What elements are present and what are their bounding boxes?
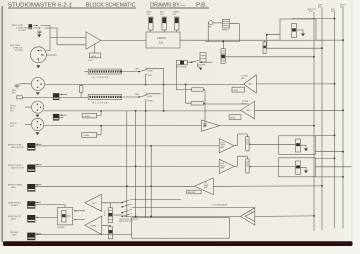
svg-text:INSERT: INSERT xyxy=(222,30,229,32)
svg-text:LED: LED xyxy=(208,27,212,29)
potentiometer send level B xyxy=(246,159,251,173)
wire jack/mic to preamp verticals xyxy=(44,25,57,44)
wire left mix line xyxy=(45,83,244,85)
wire insert to fader riser xyxy=(230,24,240,42)
node junction left mix line xyxy=(145,84,147,86)
node junction trim tap xyxy=(100,110,102,112)
wire mono amp to monitor bus xyxy=(255,215,314,218)
potentiometer GAIN box xyxy=(89,53,101,58)
wire jack J2 to display feed xyxy=(59,96,88,98)
svg-text:+GAIN: +GAIN xyxy=(83,134,89,137)
lamp PFL indicator xyxy=(208,21,213,29)
wire trim ch4 to monitor line xyxy=(97,126,101,135)
wire riser 1 into monitor box xyxy=(126,111,128,218)
jack JF contacts xyxy=(35,233,41,235)
svg-text:JACK: JACK xyxy=(12,234,18,237)
wire pot A out xyxy=(249,143,295,145)
op-amp A7 foldback amp xyxy=(194,178,213,195)
svg-text:XLR: XLR xyxy=(10,126,14,128)
switch monitor send on/off xyxy=(188,60,210,62)
potentiometer monitor send xyxy=(177,60,188,68)
wire left mix line to aux bus xyxy=(256,83,334,85)
svg-text:MASTER: MASTER xyxy=(188,191,196,194)
wire select line xyxy=(132,199,181,201)
node junction aux bus ch1 xyxy=(334,18,336,20)
jack JA effects return 1 xyxy=(27,143,35,151)
display left meter xyxy=(88,69,121,74)
wire fader out to monitor bus xyxy=(225,56,314,58)
ground monitor send switch xyxy=(198,63,201,67)
switch routing 1 xyxy=(139,69,147,74)
node junction monitor line taps xyxy=(100,125,102,127)
node junction aux bus A xyxy=(334,135,336,137)
svg-text:GAIN: GAIN xyxy=(91,55,96,58)
svg-text:JACK: JACK xyxy=(11,218,17,221)
wire amp A8 feed xyxy=(102,203,122,208)
wire trim to right mix line xyxy=(97,111,101,116)
svg-text:SELECT BLOCK: SELECT BLOCK xyxy=(119,221,133,223)
right paper edge faint line xyxy=(351,0,354,246)
switch phones contacts xyxy=(75,211,85,220)
jack JA contacts xyxy=(35,143,41,145)
jack JC effects send xyxy=(27,184,35,192)
svg-text:XLR: XLR xyxy=(10,111,14,113)
node junction right bus B xyxy=(342,176,344,178)
potentiometer EQ mid slider xyxy=(162,17,167,32)
node junction risers on left mix line xyxy=(163,84,165,86)
jack J3 contacts xyxy=(59,115,67,118)
jack JB effects return 2 xyxy=(27,165,35,173)
potentiometer send level A xyxy=(246,137,251,151)
node junction pan feed xyxy=(266,34,268,36)
svg-text:3 BAND: 3 BAND xyxy=(157,37,166,40)
jack JB contacts xyxy=(35,164,41,166)
ground below C1 xyxy=(37,34,41,37)
wire right mix to right bus xyxy=(255,109,343,111)
svg-text:MON: MON xyxy=(147,96,152,98)
block phones pot box xyxy=(57,207,73,229)
wire contacts to amps xyxy=(84,211,87,220)
node junction aux bus B xyxy=(334,158,336,160)
block insert jack xyxy=(222,20,230,32)
svg-text:ROUTING: ROUTING xyxy=(197,64,206,66)
switch monitor select 2a xyxy=(122,210,132,213)
block monitor section box xyxy=(119,218,229,239)
wire master mono line xyxy=(124,215,240,217)
wire fader left to box xyxy=(113,214,123,216)
fader channel 1 xyxy=(221,49,225,64)
svg-text:SOCKET: SOCKET xyxy=(18,30,27,32)
node junction monitor bus ch1 xyxy=(313,56,315,58)
wire riser 2 into monitor box xyxy=(135,111,137,218)
node junction master line taps xyxy=(126,185,128,187)
svg-text:JACK SOCKET: JACK SOCKET xyxy=(11,167,25,170)
filter block U2 3 band EQ xyxy=(146,32,180,48)
wire preamp to gain pot xyxy=(94,44,96,53)
switch monitor select 1b xyxy=(122,204,132,207)
svg-text:JACK: JACK xyxy=(11,186,17,189)
svg-text:IN JACK: IN JACK xyxy=(11,204,19,207)
node junction right mix line xyxy=(145,110,147,112)
svg-text:RIGHT: RIGHT xyxy=(91,225,98,227)
XLR X4 connector xyxy=(31,118,43,130)
switch monitor select 2b xyxy=(122,214,132,217)
wire tag to jack J2 xyxy=(22,96,53,98)
wire r4 row extension xyxy=(203,103,249,105)
switch monitor select 1a xyxy=(122,200,132,203)
wire master line to left bus xyxy=(213,185,322,187)
wire XLR X3 lead xyxy=(25,106,32,108)
op-amp A8 left power amp xyxy=(85,194,102,211)
svg-text:TO POWER AMPS: TO POWER AMPS xyxy=(212,204,228,207)
wire box A top to aux bus xyxy=(316,135,335,137)
svg-text:SUM: SUM xyxy=(249,212,253,214)
XLR X2 connector xyxy=(31,77,44,90)
block gain trim ch3 xyxy=(82,113,97,118)
wire box B bottom to right bus xyxy=(316,176,344,178)
bottom light strip below binder bar xyxy=(0,246,360,254)
svg-text:E.Q.: E.Q. xyxy=(159,42,164,45)
node junction fader feed xyxy=(222,41,224,43)
display right meter xyxy=(88,95,121,100)
node junction line A taps xyxy=(150,145,152,147)
switch routing 2 xyxy=(139,95,147,100)
block gain trim ch4 xyxy=(82,132,97,137)
op-amp A6 send amp B xyxy=(219,159,234,173)
svg-text:LEVEL: LEVEL xyxy=(233,90,239,92)
fader master left xyxy=(108,208,112,223)
XLR X1 connector xyxy=(30,47,46,63)
wire jack JD to phones pot box xyxy=(35,205,65,208)
wire right bus riser xyxy=(163,68,165,111)
svg-text:(L) DISPLAY: (L) DISPLAY xyxy=(92,76,109,79)
block foldback label xyxy=(187,190,201,194)
block left mix amp label xyxy=(232,87,245,92)
svg-text:PHONES: PHONES xyxy=(57,227,65,229)
wire display left stub xyxy=(84,71,88,73)
block right mix amp label xyxy=(229,115,241,120)
wire R4 leads xyxy=(186,84,205,103)
wire display to routing switch 2 xyxy=(121,96,139,98)
right white margin band xyxy=(351,0,360,254)
resistor R3 monitor mix xyxy=(192,88,204,91)
capacitor C2 pad xyxy=(15,85,20,88)
block master pot box B xyxy=(279,158,316,177)
jack JE monitor out xyxy=(27,215,35,222)
op-amp A10 mono output amp xyxy=(240,208,254,226)
jack JD contacts xyxy=(35,201,41,203)
node junction right bus ch1 xyxy=(342,39,344,41)
ground below XLR X4 xyxy=(36,131,40,135)
resistor R2 meter feed xyxy=(79,84,83,97)
wire monitor amp out to monitor bus xyxy=(219,125,314,127)
fader master right xyxy=(108,227,112,239)
wire LED to insert box xyxy=(213,22,223,24)
jack JF phones xyxy=(27,233,35,241)
op-amp A4 monitor amp xyxy=(201,120,219,131)
wire effects line B xyxy=(35,165,219,167)
wire amp B to pot B xyxy=(234,156,247,166)
jack JC contacts xyxy=(35,184,41,186)
ground below XLR X1 xyxy=(36,63,40,68)
potentiometer aux send ch1 xyxy=(263,40,266,53)
op-amp A9 right power amp xyxy=(85,216,102,235)
potentiometer EQ treble slider xyxy=(175,17,180,32)
svg-text:(R) DISPLAY: (R) DISPLAY xyxy=(92,101,110,104)
svg-text:SOCKET: SOCKET xyxy=(15,50,24,52)
wire monitor bus vertical xyxy=(313,12,315,231)
wire preamp input lines xyxy=(46,38,86,56)
svg-text:MIX L: MIX L xyxy=(241,78,246,80)
svg-text:+GAIN: +GAIN xyxy=(84,115,90,118)
jack J1 socket xyxy=(29,24,33,29)
svg-text:RIGHT: RIGHT xyxy=(147,71,154,73)
wire amp A9 feed xyxy=(102,225,111,227)
wire fader left out run xyxy=(132,207,255,209)
binder bar bottom xyxy=(3,241,353,246)
wire pan feed with tee xyxy=(267,35,280,49)
wire link between amps xyxy=(104,211,106,216)
node junction mix line taps xyxy=(135,110,137,112)
op-amp A3 right mix amp xyxy=(241,101,255,119)
ground below XLR X3 xyxy=(36,113,40,117)
wire box B out run xyxy=(316,166,352,168)
XLR X3 connector xyxy=(31,101,43,113)
node junction left bus ch1 xyxy=(321,47,323,49)
node junction right bus mix xyxy=(342,109,344,111)
wire left bus vertical xyxy=(321,8,323,231)
jack JE contacts xyxy=(35,216,57,218)
wire preamp output to EQ xyxy=(101,40,146,42)
wire aux bus vertical xyxy=(334,12,336,228)
block master pot box A xyxy=(279,136,316,155)
wire insert riser xyxy=(207,23,209,42)
svg-text:MIX R: MIX R xyxy=(242,104,248,106)
wire routing 1 right throw to right bus riser xyxy=(146,68,164,84)
wire pan box top to aux bus xyxy=(292,18,335,20)
wire box B top to aux bus xyxy=(316,157,335,159)
jack J2 contacts xyxy=(59,93,67,95)
left page edge dark line xyxy=(2,6,3,242)
svg-text:6-35MM JACK: 6-35MM JACK xyxy=(16,27,30,30)
wire pad to XLR X2 xyxy=(17,84,31,85)
block line level tag xyxy=(17,96,23,99)
jack JD monitor aux in xyxy=(27,201,35,208)
jack J1 switch contacts xyxy=(33,25,44,28)
resistor R1 network xyxy=(197,53,206,67)
wire jack JF run to monitor box xyxy=(35,234,131,236)
svg-text:LED: LED xyxy=(89,60,93,62)
wire aux send to left bus xyxy=(266,47,322,49)
op-amp A5 send amp A xyxy=(219,139,234,153)
wire XLR X4 lead xyxy=(25,124,31,126)
op-amp A1 mic/line preamp xyxy=(86,32,101,49)
wire riser 3 into monitor box xyxy=(150,146,152,218)
wire display to routing switch 1 xyxy=(121,71,139,73)
node junction right bus A xyxy=(342,151,344,153)
wire EQ output run xyxy=(180,39,280,41)
svg-text:RIGHT: RIGHT xyxy=(147,101,154,103)
svg-text:JACK SOCKET: JACK SOCKET xyxy=(11,146,25,149)
resistor R4 monitor mix xyxy=(191,101,203,105)
node junction left bus master xyxy=(321,185,323,187)
wire monitor send run xyxy=(201,61,212,63)
jack J3 line in ch3 xyxy=(53,114,59,121)
svg-text:MON SEND: MON SEND xyxy=(177,66,188,68)
block pan pot box ch1 xyxy=(280,19,316,40)
wire right mix line xyxy=(44,110,241,112)
wire right bus vertical xyxy=(342,8,344,229)
node junction monitor bus master xyxy=(313,215,315,217)
wire pot B out xyxy=(249,166,295,168)
wire box A out to right bus xyxy=(316,151,344,153)
op-amp A2 left mix amp xyxy=(244,75,257,93)
title underline xyxy=(8,7,209,9)
wire master line left xyxy=(35,185,194,187)
node junction aux bus mix xyxy=(334,83,336,85)
wire monitor mix line xyxy=(44,125,202,127)
wire R3 leads xyxy=(176,65,205,126)
wire amp A to pot A xyxy=(234,134,247,146)
jack J2 line in ch2 xyxy=(53,93,59,100)
potentiometer EQ bass slider xyxy=(149,17,154,32)
op-amp A10 inner detail xyxy=(245,211,255,221)
capacitor C1 input xyxy=(37,31,42,34)
wire effects line A xyxy=(35,145,219,147)
node junction mono line taps xyxy=(135,216,137,218)
svg-text:LEVEL: LEVEL xyxy=(230,117,236,119)
wire channel 1 to right bus xyxy=(316,39,343,41)
wire fader feed xyxy=(205,42,240,49)
node junction monitor bus mix xyxy=(313,125,315,127)
node junction line B taps xyxy=(135,166,137,168)
node junction display 1 out xyxy=(121,71,123,73)
wire routing 2 throws xyxy=(146,94,161,218)
ground below XLR X2 xyxy=(36,91,40,95)
